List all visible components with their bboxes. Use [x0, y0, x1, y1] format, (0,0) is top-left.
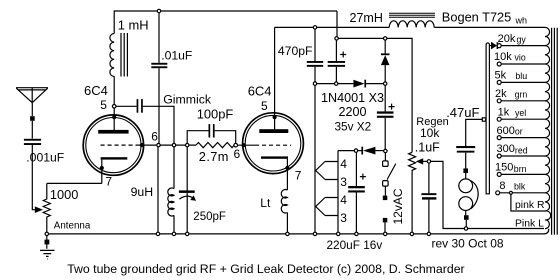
svg-text:600: 600 [497, 125, 515, 137]
svg-text:7: 7 [105, 174, 112, 188]
wire cap1 bottom [335, 67, 337, 82]
junction rail / 220uF [355, 232, 358, 235]
wire .01uF top [158, 13, 160, 63]
wiper arrowhead antenna pot [35, 206, 43, 213]
wire to regen feed corner [387, 38, 412, 152]
svg-text:wh: wh [515, 15, 528, 25]
ground symbol [40, 250, 55, 259]
pin 6 terminal circle V2 / junction [234, 143, 238, 147]
inductor Lt tickler [281, 190, 287, 213]
svg-text:5: 5 [100, 98, 107, 112]
tap 8 blk [496, 191, 500, 195]
tap 10k vio [497, 62, 501, 66]
capacitor 2200uF #2 [384, 85, 386, 111]
wire junction down to rail [157, 147, 159, 232]
wire doubler mid line [317, 83, 354, 85]
svg-text:1000: 1000 [50, 187, 78, 202]
open square loop tap [482, 118, 485, 121]
svg-text:pink R: pink R [515, 200, 545, 211]
wire heater line down to rail [314, 85, 316, 232]
capacitor 2200uF #1 [335, 40, 337, 61]
capacitor 220uF 16v [355, 152, 357, 186]
wire .01uF bottom to grid line [158, 68, 160, 143]
svg-text:Lt: Lt [260, 196, 271, 210]
svg-text:250pF: 250pF [193, 211, 226, 223]
svg-text:7: 7 [295, 169, 302, 183]
tap 600 or [497, 136, 501, 140]
wire switch to 12vAC terminal [384, 186, 386, 196]
wire grid V1 to junction [139, 144, 157, 146]
tap 2k grn [497, 99, 501, 103]
envelope junction dot V2 cathode lead [285, 166, 289, 170]
envelope junction dot V1 cathode lead [100, 166, 104, 170]
wire 100pF loop left [187, 131, 208, 144]
svg-text:4: 4 [340, 157, 347, 171]
regen wiper arrow [416, 158, 423, 164]
plus sign cap1 [340, 52, 346, 58]
bottom common rail [49, 229, 549, 234]
svg-text:6C4: 6C4 [248, 84, 272, 99]
wire rail A corner down [336, 11, 338, 37]
svg-text:or: or [515, 126, 523, 136]
grid V2 (dashed) [255, 144, 291, 146]
junction rail / Lt [286, 232, 289, 235]
cathode V1 [101, 157, 128, 159]
tap 20k gy [497, 44, 501, 48]
wire jack bottom [465, 211, 467, 216]
svg-text:6: 6 [151, 129, 158, 143]
svg-text:3: 3 [340, 211, 347, 225]
svg-text:8: 8 [499, 180, 505, 192]
phone jack circles [465, 173, 467, 179]
tube V2 6C4 envelope [243, 113, 304, 174]
wire antenna down [31, 103, 33, 116]
junction grid line / 100pF / 250pF [186, 143, 189, 146]
wire pink R [511, 194, 545, 211]
svg-text:Pink L: Pink L [515, 218, 544, 229]
wire 9uH to rail [173, 215, 175, 232]
wire Lt to rail [286, 213, 288, 233]
svg-text:470pF: 470pF [278, 44, 313, 58]
junction D2 / switch / cap2 [384, 149, 387, 152]
junction D1 / cap2 / D3 [384, 82, 387, 85]
wire 100pF loop right [215, 131, 236, 144]
wire .47uF top to loop [466, 119, 483, 146]
svg-text:2k: 2k [495, 88, 507, 100]
junction wiper / .1uF [427, 160, 430, 163]
potentiometer 1000 (Antenna) [43, 183, 50, 232]
svg-text:300: 300 [497, 143, 515, 155]
envelope junction dot V1 grid lead [140, 143, 144, 147]
capacitor .001uF [24, 139, 41, 145]
svg-text:Bogen T725: Bogen T725 [442, 10, 512, 25]
envelope junction dot V2 plate lead [273, 115, 277, 119]
svg-text:4: 4 [340, 193, 347, 207]
svg-text:2.7m: 2.7m [199, 149, 229, 164]
potentiometer Regen 10k [409, 152, 416, 232]
svg-text:3: 3 [340, 175, 347, 189]
junction rail / .01uF branch [156, 232, 159, 235]
wire cap2 bottom [384, 118, 386, 150]
svg-text:9uH: 9uH [131, 185, 154, 199]
svg-text:12vAC: 12vAC [391, 188, 405, 224]
svg-text:brn: brn [514, 164, 527, 174]
diode D3 1N4001 (vertical) [384, 40, 386, 53]
junction grid line / gimmick / 9uH [172, 143, 175, 146]
ground post square [45, 240, 50, 245]
junction cap1 / doubler line [335, 82, 338, 85]
svg-text:red: red [515, 146, 528, 156]
wire loop to D4 [489, 45, 491, 47]
svg-text:gy: gy [517, 34, 527, 44]
transformer core [552, 28, 558, 235]
wire V2 plate lead from B+ line [274, 27, 276, 130]
wire 250pF top [186, 147, 188, 191]
wire doubler top [338, 37, 383, 39]
plus sign 220uF [360, 174, 366, 180]
wire cathode V1 down to pot line [101, 160, 103, 184]
pin 5 terminal circle V1 [112, 105, 116, 109]
junction rail / 12vAC [384, 232, 387, 235]
tap 5k blu [497, 80, 501, 84]
wire grid junction to tube V2 [238, 144, 256, 146]
junction rail A / .01uF [157, 9, 160, 12]
resistor 2.7m grid leak [196, 143, 234, 148]
diode D1 1N4001 [353, 80, 366, 88]
svg-text:150: 150 [495, 162, 513, 174]
wire grid line V1 to V2 [160, 144, 196, 146]
wire wiper to phones line [431, 161, 544, 228]
wire .1uF bottom to rail [428, 200, 430, 233]
svg-text:10k: 10k [494, 51, 512, 63]
capacitor 100pF [209, 124, 215, 137]
capacitor .1uF [428, 163, 430, 193]
svg-text:100pF: 100pF [197, 107, 234, 122]
svg-text:10k: 10k [420, 126, 440, 140]
capacitor 470pF [314, 29, 316, 61]
junction rail / .1uF [427, 232, 430, 235]
wire cap to wiper arrow [32, 145, 35, 210]
inductor 27mH choke [389, 13, 435, 27]
wire D3 to junction [384, 65, 386, 82]
svg-text:blk: blk [514, 182, 526, 192]
junction 8 tap / pink R [509, 191, 512, 194]
wire pin5 lead into plate [113, 108, 115, 130]
wire .47uF to jack [465, 153, 467, 169]
svg-text:Antenna: Antenna [54, 221, 91, 232]
wire 27mH to transformer top (wh) [434, 26, 545, 28]
switch S1 [384, 153, 386, 162]
tube V1 6C4 envelope [83, 115, 143, 175]
capacitor Gimmick [137, 99, 143, 113]
tap 150 brn [497, 172, 501, 176]
phone jack arc [470, 181, 478, 209]
wire junction down to 9uH [173, 147, 175, 189]
plate V1 [98, 130, 128, 134]
wire B+ line to 27mH [275, 26, 390, 28]
plate V2 [259, 129, 288, 133]
svg-text:.47uF: .47uF [446, 105, 479, 120]
diode D4 to 20k tap [491, 42, 498, 50]
wire pin5 to gimmick cap [116, 105, 137, 107]
output transformer Bogen T725 winding [545, 27, 551, 228]
wire 250pF bottom to rail [186, 193, 188, 232]
svg-text:Two tube grounded grid RF + Gr: Two tube grounded grid RF + Grid Leak De… [67, 262, 464, 276]
inductor 9uH [168, 188, 174, 216]
jack terminal square top [463, 168, 468, 173]
svg-text:6C4: 6C4 [84, 83, 108, 98]
wire 220uF bottom to rail [355, 193, 357, 233]
svg-text:vio: vio [515, 53, 526, 63]
12vAC terminal square bottom [383, 218, 388, 223]
B+ feed loop (thin) [486, 43, 489, 194]
svg-text:27mH: 27mH [350, 11, 383, 25]
wire 12vAC to rail [384, 222, 386, 232]
wire D1 to junction [366, 83, 383, 85]
switch lever [387, 164, 396, 180]
junction rail / regen pot [410, 232, 413, 235]
wire 1mH top to rail A [114, 11, 337, 34]
junction 470pF / doubler line [313, 82, 316, 85]
junction rail / 9uH [172, 232, 175, 235]
svg-text:.1uF: .1uF [415, 141, 440, 155]
antenna symbol [16, 88, 48, 103]
wire jack to phones line [465, 220, 467, 227]
svg-text:5: 5 [261, 99, 268, 113]
svg-text:1 mH: 1 mH [118, 17, 149, 32]
diode D2 1N4001 [358, 150, 362, 152]
svg-text:grn: grn [515, 90, 528, 100]
tap 1k yel [497, 117, 501, 121]
12vAC terminal square top [383, 196, 388, 201]
svg-text:1N4001 X3: 1N4001 X3 [321, 91, 384, 105]
capacitor .01uF [151, 63, 167, 68]
junction rail / heater bus [337, 232, 340, 235]
wire doubler lower line [338, 150, 354, 152]
junction B+ / 470pF [313, 26, 316, 29]
svg-text:220uF 16v: 220uF 16v [327, 238, 383, 252]
junction phones line / jack [464, 227, 467, 230]
envelope junction dot V2 grid lead [242, 143, 246, 147]
svg-text:1k: 1k [498, 106, 510, 118]
svg-text:rev 30 Oct 08: rev 30 Oct 08 [432, 237, 504, 251]
wire square to cap [31, 121, 33, 139]
junction grid line / .01uF [157, 143, 160, 146]
cathode V2 [261, 156, 288, 158]
svg-text:blu: blu [515, 71, 527, 81]
svg-text:5k: 5k [495, 70, 507, 82]
junction rail / 250pF [186, 232, 189, 235]
svg-text:2200: 2200 [339, 105, 367, 119]
wire 470pF bottom [314, 67, 316, 82]
grid V1 (dashed) [101, 144, 139, 146]
svg-text:35v X2: 35v X2 [335, 120, 372, 134]
antenna terminal square [30, 116, 35, 121]
jack terminal square bottom [464, 215, 469, 220]
tap 300 red [497, 154, 501, 158]
plus sign cap2 [389, 104, 395, 110]
heater pin stubs 4,3,4,3 [316, 162, 338, 216]
svg-text:.01uF: .01uF [161, 49, 192, 63]
wire gimmick cap to grid leak junction [143, 106, 174, 143]
junction D2 / 220uF [354, 149, 357, 152]
wire pot top to tube1 cathode [47, 182, 102, 184]
heater bus vertical [337, 151, 339, 233]
junction doubler top left [335, 37, 338, 40]
capacitor .47uF [456, 146, 475, 153]
svg-text:6: 6 [234, 147, 241, 161]
svg-text:20k: 20k [498, 33, 516, 45]
junction doubler top right [384, 37, 387, 40]
inductor 1 mH plate choke [110, 33, 128, 77]
svg-text:Gimmick: Gimmick [163, 93, 212, 107]
envelope junction dot V1 plate lead [112, 115, 116, 119]
wire 1mH bottom to pin5 [113, 76, 115, 104]
wire junction to ground post [46, 236, 48, 249]
wire cathode V2 down [286, 159, 288, 190]
junction rail / heater line [313, 232, 316, 235]
junction pot / ground rail [45, 232, 48, 235]
svg-text:yel: yel [515, 108, 526, 118]
variable capacitor 250pF [179, 190, 196, 200]
